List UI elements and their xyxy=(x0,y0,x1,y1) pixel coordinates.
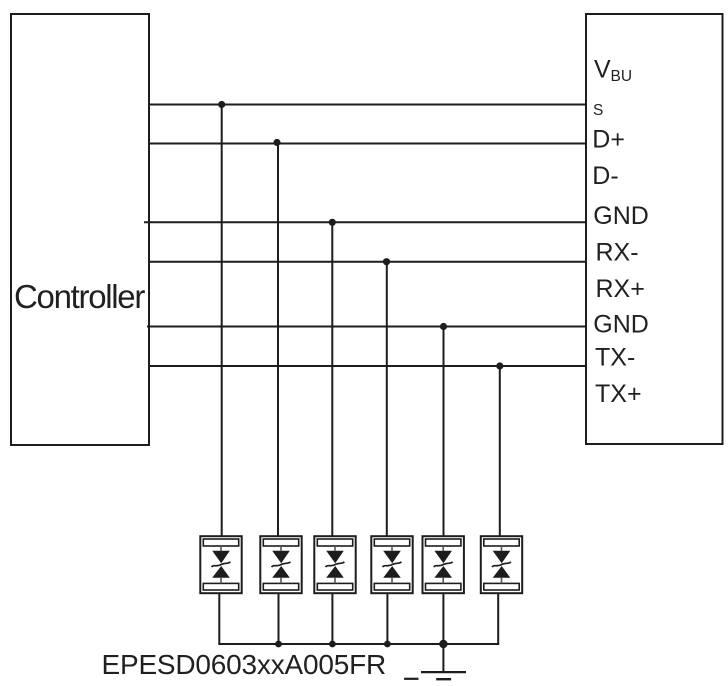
TVS diode D1 xyxy=(200,536,241,593)
svg-text:RX+: RX+ xyxy=(596,275,645,303)
TVS diode D2 xyxy=(260,536,301,593)
TVS diode D3 xyxy=(314,536,355,593)
Controller label xyxy=(14,278,145,315)
svg-text:EPESD0603xxA005FR: EPESD0603xxA005FR xyxy=(102,649,387,680)
underscore mark xyxy=(404,678,418,680)
wire TX- horizontal xyxy=(149,365,586,367)
wire VBUS horizontal xyxy=(149,104,586,106)
node bus junction 5 xyxy=(439,640,447,648)
node bus junction 4 xyxy=(384,641,391,648)
wire D6 to bus xyxy=(497,594,499,645)
node TX- junction xyxy=(496,362,503,369)
TVS diode D6 xyxy=(481,536,522,593)
pin label TX- xyxy=(595,344,635,372)
pin label VBUS xyxy=(593,55,632,119)
wire vertical to D6 xyxy=(499,366,501,537)
node RX- junction xyxy=(383,258,390,265)
node D+ junction xyxy=(273,139,280,146)
wire vertical to D3 xyxy=(331,222,333,536)
pin label RX- xyxy=(596,238,639,266)
svg-text:TX-: TX- xyxy=(595,344,635,372)
svg-text:GND: GND xyxy=(593,311,649,339)
svg-text:TX+: TX+ xyxy=(595,380,642,408)
ground xyxy=(421,644,466,679)
pin label D+ xyxy=(592,126,625,154)
wire GND2 horizontal xyxy=(147,326,586,328)
wire D+ horizontal xyxy=(149,143,586,145)
wire vertical to D5 xyxy=(443,327,445,537)
pin label GND2 xyxy=(593,311,649,339)
svg-text:S: S xyxy=(593,102,603,119)
node bus junction 3 xyxy=(329,641,336,648)
TVS diode D5 xyxy=(423,536,464,593)
wire vertical to D4 xyxy=(386,262,388,537)
node GND2 junction xyxy=(440,323,447,330)
svg-text:D-: D- xyxy=(592,162,618,190)
wire vertical to D1 xyxy=(221,105,223,537)
connector box xyxy=(586,14,723,444)
svg-text:GND: GND xyxy=(593,202,649,230)
node VBUS junction xyxy=(218,101,225,108)
Controller box xyxy=(11,14,149,445)
pin label TX+ xyxy=(595,380,642,408)
svg-text:BU: BU xyxy=(611,68,633,85)
part number label xyxy=(102,649,387,680)
wire D1 to bus xyxy=(218,594,220,645)
wire GND horizontal xyxy=(144,221,586,223)
node GND junction xyxy=(329,219,336,226)
wire vertical to D2 xyxy=(277,144,279,537)
svg-text:V: V xyxy=(594,55,611,83)
wire D3 to bus xyxy=(331,594,333,645)
TVS diode D4 xyxy=(371,536,412,593)
wire D4 to bus xyxy=(386,594,388,645)
pin label D- xyxy=(592,162,618,190)
wire D5 to bus xyxy=(442,594,444,645)
svg-text:D+: D+ xyxy=(592,126,625,154)
wire RX- horizontal xyxy=(149,261,586,263)
pin label RX+ xyxy=(596,275,645,303)
svg-text:RX-: RX- xyxy=(596,238,639,266)
pin label GND xyxy=(593,202,649,230)
wire ground bus xyxy=(218,643,499,645)
node bus junction 2 xyxy=(275,641,282,648)
wire D2 to bus xyxy=(278,594,280,645)
svg-text:Controller: Controller xyxy=(14,278,145,315)
